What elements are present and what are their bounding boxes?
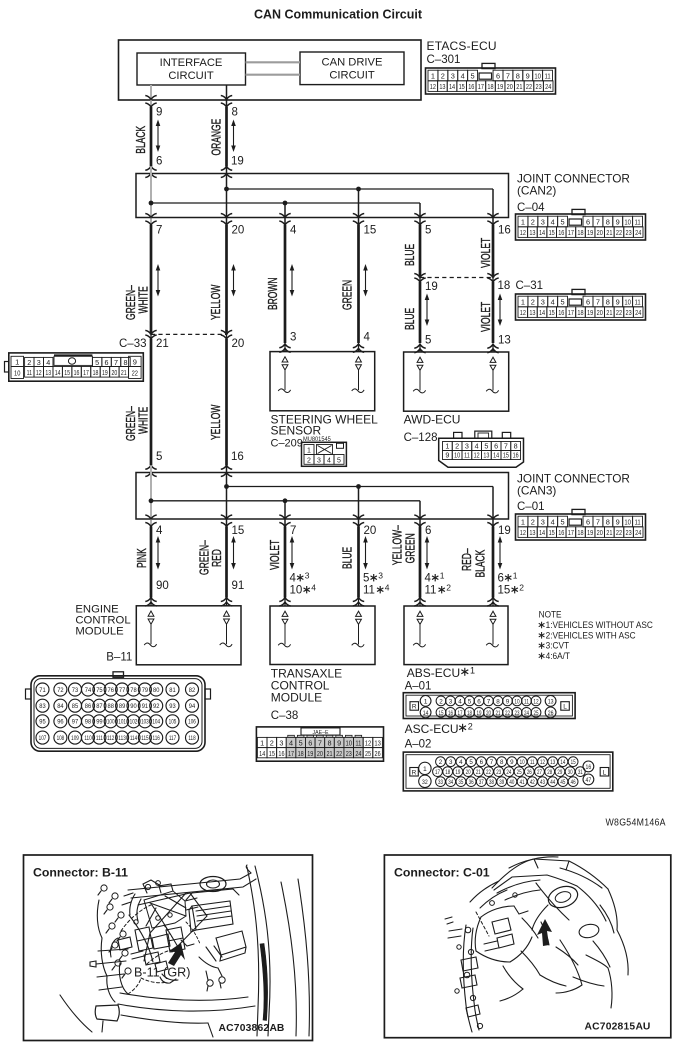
svg-text:PINK: PINK [135,548,149,568]
svg-text:9: 9 [156,107,162,119]
svg-text:L: L [563,704,567,711]
svg-text:C–33: C–33 [119,338,147,350]
wire gray internal CAN3 left [150,465,152,526]
svg-text:SENSOR: SENSOR [271,424,322,438]
svg-text:2: 2 [439,759,443,766]
svg-text:47: 47 [586,778,592,785]
arrow on VIOLET wire [290,536,295,570]
svg-text:22: 22 [616,229,622,237]
svg-text:R: R [412,769,417,776]
svg-text:15: 15 [549,229,555,237]
label GREEN-WHITE lower [124,406,151,441]
svg-text:24: 24 [545,83,551,91]
svg-text:25: 25 [365,750,371,758]
svg-text:CIRCUIT: CIRCUIT [329,70,375,82]
svg-text:4: 4 [311,582,316,592]
svg-text:4: 4 [290,573,297,585]
svg-text:21: 21 [476,769,481,776]
arrow on GREEN wire [363,264,368,297]
svg-text:23: 23 [514,710,519,717]
terminal inside ECM pin 91 [220,611,232,647]
junction dot CAN3 bus2 at pin7 wire [283,498,288,503]
svg-text:17: 17 [568,529,574,537]
svg-text:13: 13 [550,760,555,767]
label ASC-ECU*2 [405,722,473,737]
svg-text:112: 112 [107,735,114,742]
svg-text:14: 14 [539,309,545,317]
stub wire CAN2 pin 4 [284,203,286,225]
svg-text:79: 79 [142,687,149,694]
svg-text:5: 5 [561,517,565,526]
svg-text:32: 32 [422,779,428,786]
svg-text:76: 76 [107,687,114,694]
arrow on RED-BLACK wire [498,536,503,570]
svg-text:84: 84 [57,703,64,710]
svg-text:18: 18 [577,529,583,537]
svg-text:13: 13 [529,229,535,237]
svg-text:7: 7 [596,217,600,226]
svg-text:9: 9 [526,71,530,80]
svg-text:18: 18 [577,229,583,237]
joint connector CAN2 box [136,174,509,218]
terminal inside ECM pin 90 [144,611,156,647]
connector C-31 pinout [516,289,646,320]
svg-text:22: 22 [616,309,622,317]
connector A-02 pinout [403,752,613,791]
svg-text:VIOLET: VIOLET [479,301,493,332]
chevrons out of CAN3 at x=420 [414,515,425,527]
svg-text:19: 19 [102,369,108,377]
terminal inside TCM pin 1 [278,611,290,647]
svg-text:12: 12 [520,529,526,537]
svg-text:20: 20 [486,710,491,717]
svg-text:AWD-ECU: AWD-ECU [404,413,461,427]
svg-text:20: 20 [507,83,513,91]
svg-text:16: 16 [74,369,80,377]
svg-text:16: 16 [498,225,511,237]
svg-text:11: 11 [634,519,640,527]
svg-text:92: 92 [153,703,160,710]
bus CAN3 line2 [151,500,420,502]
svg-text:75: 75 [96,687,103,694]
svg-text:78: 78 [130,687,137,694]
svg-text:GREEN: GREEN [404,533,418,563]
svg-text:NOTE: NOTE [539,609,562,619]
svg-text:10: 10 [454,452,460,460]
svg-text:Connector: B-11: Connector: B-11 [33,866,128,880]
svg-text:33: 33 [438,779,443,786]
chevrons into ECM pin 90 [145,598,156,607]
svg-text:2: 2 [270,739,274,748]
svg-text:26: 26 [548,711,554,718]
svg-text:34: 34 [448,779,453,786]
svg-text:19: 19 [497,83,503,91]
svg-text:ABS-ECU: ABS-ECU [407,666,460,680]
svg-text:19: 19 [307,750,313,758]
svg-text:3: 3 [279,739,283,748]
svg-text:24: 24 [506,769,511,776]
terminal inside steering wheel sensor pin 3 [278,357,290,393]
connector chevrons ETACS pin 9 [145,96,156,108]
svg-text:9: 9 [445,451,449,460]
wire internal CAN3 right [226,465,228,526]
chevrons out of CAN2 at x=285 [279,214,290,226]
svg-text:7: 7 [504,442,508,451]
svg-text:11: 11 [524,699,529,706]
note block [539,609,653,661]
svg-text:15: 15 [549,529,555,537]
svg-text:YELLOW: YELLOW [209,284,223,320]
svg-text:6: 6 [586,517,590,526]
svg-text:YELLOW: YELLOW [209,404,223,440]
wire CAN_H internal ETACS (gray) [150,85,152,107]
terminal inside AWD-ECU pin 5 [413,357,425,393]
svg-text:104: 104 [152,719,160,726]
svg-text:17: 17 [83,369,89,377]
svg-text:11: 11 [363,585,375,597]
svg-text:1: 1 [521,297,525,306]
svg-text:89: 89 [119,703,126,710]
svg-text:17: 17 [478,83,484,91]
svg-text:B-11 (GR): B-11 (GR) [134,966,190,980]
chevrons into CAN3 pin 5 [145,465,156,476]
svg-text:27: 27 [537,769,542,776]
pin 4*1/11*2 label [425,570,452,596]
wire internal CAN2 right [226,166,228,225]
chevrons into CAN3 pin 16 [221,465,232,476]
svg-text:4: 4 [475,442,479,451]
svg-text:1: 1 [15,358,19,367]
svg-text:2: 2 [307,457,311,464]
svg-text:6: 6 [498,573,504,585]
arrow on GREEN-RED wire [231,536,236,570]
svg-text:23: 23 [625,529,631,537]
wire RED-BLACK CAN3 to module [492,527,495,598]
wire VIOLET CAN3 to module [284,527,287,598]
svg-text:15: 15 [232,525,245,537]
svg-text:2: 2 [468,722,473,732]
svg-text:6: 6 [156,156,162,168]
stub wire CAN3 pin 7 [284,501,286,527]
svg-text:21: 21 [606,229,612,237]
svg-text:24: 24 [355,750,361,758]
svg-text:4:6A/T: 4:6A/T [546,651,571,661]
svg-text:7: 7 [487,698,491,705]
svg-text:C–38: C–38 [271,710,299,722]
svg-text:5: 5 [425,225,431,237]
label ABS-ECU*1 [407,666,475,681]
svg-text:(CAN3): (CAN3) [517,484,556,498]
svg-text:16: 16 [558,529,564,537]
svg-text:4: 4 [364,332,371,344]
svg-text:4: 4 [459,759,463,766]
svg-text:19: 19 [476,710,481,717]
block CAN DRIVE CIRCUIT [300,52,404,85]
svg-text:18: 18 [445,769,450,776]
svg-text:4: 4 [46,358,50,367]
svg-text:4: 4 [461,71,465,80]
svg-text:MODULE: MODULE [75,626,124,638]
svg-text:23: 23 [625,229,631,237]
chevrons out of CAN2 at x=226.5 [221,214,232,226]
svg-text:14: 14 [423,711,429,718]
svg-text:BLUE: BLUE [341,547,355,569]
svg-text:72: 72 [57,687,64,694]
svg-text:12: 12 [533,699,538,706]
chevrons out of CAN3 at x=151 [145,515,156,527]
svg-text:4: 4 [289,739,293,748]
svg-text:4: 4 [425,573,432,585]
svg-text:RED–: RED– [460,548,474,571]
svg-text:17: 17 [435,769,440,776]
arrow on PINK wire [156,536,161,570]
chevrons out of CAN2 at x=420 [414,214,425,226]
pin 6*1/15*2 label [498,570,525,596]
svg-text:4: 4 [290,225,297,237]
svg-text:3: 3 [305,570,310,580]
svg-text:10: 10 [624,299,631,307]
svg-text:90: 90 [130,703,137,710]
svg-text:16: 16 [278,750,284,758]
svg-text:24: 24 [635,229,641,237]
junction dot CAN3 bus1 at pin20 wire [356,484,361,489]
svg-text:1: 1 [424,699,428,706]
svg-text:19: 19 [587,529,593,537]
svg-text:8: 8 [606,217,610,226]
svg-text:93: 93 [169,703,176,710]
svg-text:2: 2 [519,582,524,592]
svg-text:C–31: C–31 [516,280,544,292]
svg-text:20: 20 [111,369,117,377]
photo inset connector C-01 location [384,855,670,1038]
svg-text:20: 20 [597,309,603,317]
svg-text:2: 2 [27,358,31,367]
svg-text:14: 14 [560,760,565,767]
svg-text:96: 96 [57,718,64,725]
svg-text:14: 14 [55,369,61,377]
svg-text:6: 6 [496,71,500,80]
chevrons out of CAN3 at x=226.5 [221,515,232,527]
svg-text:19: 19 [455,769,460,776]
svg-text:5: 5 [469,759,473,766]
svg-text:23: 23 [535,83,541,91]
svg-text:20: 20 [364,525,377,537]
connector C-128 pinout [439,431,524,467]
connector chevrons ETACS pin 8 [221,96,232,108]
svg-text:ORANGE: ORANGE [210,119,224,156]
svg-text:16: 16 [231,451,244,463]
svg-text:6: 6 [477,698,481,705]
svg-text:82: 82 [189,687,196,694]
terminal inside ABS-ECU pin 2 [486,611,498,647]
svg-text:6: 6 [308,739,312,748]
svg-text:6: 6 [494,442,498,451]
svg-text:6: 6 [105,358,109,367]
connector C-33 pinout [5,353,144,381]
svg-text:VIOLET: VIOLET [479,237,493,268]
svg-text:40: 40 [509,779,514,786]
svg-text:18: 18 [298,750,304,758]
svg-text:9: 9 [616,217,620,226]
svg-text:24: 24 [635,529,641,537]
svg-text:RED: RED [210,549,224,567]
svg-text:15: 15 [269,750,275,758]
svg-text:94: 94 [189,703,196,710]
svg-text:18: 18 [93,369,99,377]
stub wire CAN3 pin 20 [358,487,360,527]
svg-text:1: 1 [470,666,475,676]
svg-text:38: 38 [489,779,494,786]
svg-text:8: 8 [500,759,504,766]
svg-text:9: 9 [133,358,137,367]
connector C-01 pinout [516,509,646,540]
svg-text:9: 9 [510,759,514,766]
svg-text:115: 115 [141,735,148,742]
svg-text:R: R [412,704,417,711]
svg-text:10: 10 [345,740,352,748]
arrow on BLUE wire [363,536,368,570]
svg-text:13: 13 [498,335,511,347]
terminal inside AWD-ECU pin 13 [486,357,498,393]
label JOINT CONNECTOR (CAN3) [517,472,630,498]
svg-text:8: 8 [606,297,610,306]
svg-text:95: 95 [39,718,46,725]
svg-text:A–01: A–01 [405,681,432,693]
svg-text:19: 19 [587,309,593,317]
chevrons out of CAN2 at x=493 [487,214,498,226]
svg-text:3:CVT: 3:CVT [546,640,570,650]
svg-text:102: 102 [130,719,138,726]
svg-text:39: 39 [499,779,504,786]
svg-text:3: 3 [449,759,453,766]
svg-text:7: 7 [290,525,296,537]
connector C-301 pinout [426,63,556,94]
wire GREEN-RED CAN3 to module [225,527,228,598]
svg-text:13: 13 [45,369,51,377]
wire GREEN-WHITE CAN2 to C-33 [150,225,153,334]
svg-text:INTERFACE: INTERFACE [160,57,223,69]
svg-text:5: 5 [425,335,431,347]
svg-text:25: 25 [517,769,522,776]
chevrons into AWD-ECU pin 13 [487,344,498,353]
svg-text:37: 37 [479,779,484,786]
label RED-BLACK [460,548,488,577]
wire VIOLET C-31 to AWD-ECU [492,282,495,343]
svg-text:107: 107 [39,735,47,742]
svg-text:101: 101 [118,719,126,726]
svg-text:91: 91 [142,703,149,710]
svg-text:5: 5 [363,573,369,585]
svg-text:8: 8 [514,442,518,451]
svg-text:12: 12 [365,740,372,748]
pin 4*3/10*4 label [290,570,317,596]
wire BROWN CAN2 to steering wheel sensor [284,225,287,343]
svg-text:18: 18 [467,710,472,717]
svg-text:15: 15 [64,369,70,377]
svg-text:BLACK: BLACK [135,126,149,154]
svg-text:80: 80 [153,687,160,694]
svg-text:14: 14 [493,452,499,460]
svg-text:5: 5 [484,442,488,451]
svg-text:12: 12 [520,309,526,317]
wire BLUE CAN3 to module [357,527,360,598]
svg-text:26: 26 [375,750,381,758]
wire GREEN-WHITE C-33 to CAN3 [150,339,153,465]
svg-text:5: 5 [156,451,162,463]
terminal inside ABS-ECU pin 1 [413,611,425,647]
svg-text:7: 7 [318,739,322,748]
svg-text:28: 28 [547,769,552,776]
svg-text:111: 111 [96,735,103,742]
svg-text:19: 19 [231,156,244,168]
arrow on BROWN wire [290,264,295,297]
svg-text:11: 11 [634,219,640,227]
svg-text:11: 11 [464,452,470,460]
svg-text:AC702815: AC702815 [585,1022,636,1033]
svg-text:11: 11 [27,369,33,377]
wire ORANGE ETACS to CAN2 [225,107,228,166]
wire VIOLET CAN2 to C-31 [492,225,495,278]
svg-text:22: 22 [616,529,622,537]
svg-text:8: 8 [232,107,238,119]
svg-text:2: 2 [455,442,459,451]
svg-text:105: 105 [169,719,177,726]
junction dot CAN2 bus2 at pin7 wire [149,201,154,206]
svg-text:7: 7 [156,225,162,237]
svg-text:20: 20 [317,750,323,758]
svg-text:22: 22 [526,83,532,91]
svg-text:10: 10 [514,699,519,706]
chevrons into ABS-ECU [414,598,498,607]
svg-text:1: 1 [307,448,311,455]
connector C-209 pinout [302,442,347,466]
chevrons into ECM pin 91 [221,598,232,607]
connector C-38 pinout [256,727,383,761]
svg-text:91: 91 [232,580,245,592]
svg-text:5: 5 [95,358,99,367]
svg-text:18: 18 [498,280,511,292]
svg-text:10: 10 [624,519,631,527]
svg-text:113: 113 [118,735,125,742]
svg-text:25: 25 [533,710,538,717]
svg-text:7: 7 [506,71,510,80]
svg-text:C–128: C–128 [404,432,438,444]
wire BLACK ETACS to CAN2 [150,107,153,166]
bus CAN3 line1 [227,486,494,488]
svg-text:81: 81 [169,687,176,694]
svg-text:AC703862: AC703862 [219,1023,270,1034]
svg-text:A–02: A–02 [405,739,432,751]
wire BLUE CAN2 to C-31 [419,225,422,278]
svg-text:3: 3 [451,71,455,80]
inline connector C-33 dashed link [151,333,227,335]
svg-text:11: 11 [355,740,361,748]
svg-text:21: 21 [495,710,500,717]
svg-text:7: 7 [114,358,118,367]
junction dot CAN3 bus2 at pin4 wire [149,498,154,503]
chevrons into TCM [279,598,364,607]
svg-text:4: 4 [551,517,555,526]
wire GREEN CAN2 to steering wheel sensor [357,225,360,343]
svg-text:AU: AU [636,1022,651,1033]
svg-text:B–11: B–11 [106,652,132,664]
svg-text:C–04: C–04 [517,202,545,214]
svg-text:4: 4 [551,297,555,306]
label GREEN-RED [198,540,224,575]
svg-text:9: 9 [616,297,620,306]
chevrons into AWD-ECU pin 5 [414,344,425,353]
chevrons C-33 at GREEN-WHITE wire [145,330,156,339]
